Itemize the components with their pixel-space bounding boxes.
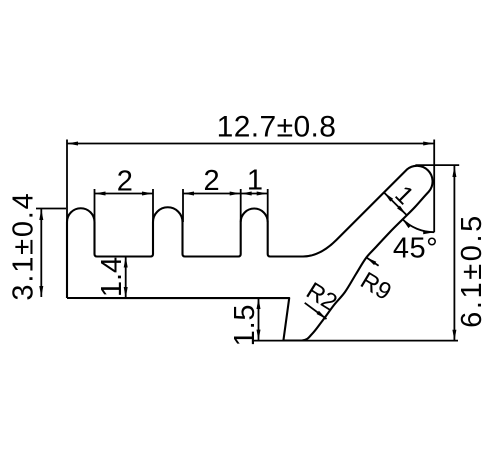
svg-text:1: 1 [389, 180, 419, 210]
svg-text:2: 2 [204, 165, 220, 197]
svg-text:1.4: 1.4 [96, 257, 128, 297]
svg-text:1.5: 1.5 [229, 304, 261, 347]
svg-text:R2: R2 [301, 277, 341, 316]
svg-text:3.1±0.4: 3.1±0.4 [8, 191, 40, 300]
svg-text:45°: 45° [393, 233, 438, 265]
svg-text:2: 2 [117, 166, 133, 198]
svg-text:1: 1 [247, 165, 263, 197]
svg-text:12.7±0.8: 12.7±0.8 [217, 111, 337, 144]
svg-text:R9: R9 [356, 267, 396, 306]
svg-text:6.1±0.5: 6.1±0.5 [456, 213, 488, 328]
